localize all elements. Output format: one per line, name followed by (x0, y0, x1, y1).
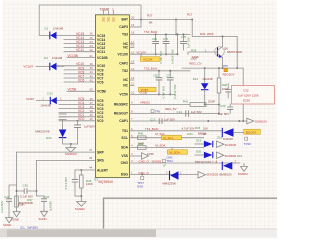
node VC2 pin 39 (59, 109, 104, 115)
svg-text:1uF 50V: 1uF 50V (187, 37, 191, 48)
svg-text:SGND: SGND (11, 217, 19, 221)
svg-text:SGND20: SGND20 (225, 143, 237, 147)
node REGSRC pin 9 (114, 101, 133, 107)
ground SGND left (3, 216, 13, 227)
svg-text:VC5B: VC5B (97, 90, 106, 94)
svg-text:4.7uF 50V: 4.7uF 50V (182, 127, 195, 131)
node SRP pin 47 (17, 148, 105, 155)
svg-text:C82: C82 (153, 73, 158, 77)
svg-text:10K: 10K (203, 127, 208, 131)
svg-text:D14: D14 (193, 77, 199, 81)
svg-text:SDA: SDA (121, 146, 129, 150)
diode D14 1N4148 vertical (193, 68, 213, 105)
node CHG pin 2 (121, 159, 133, 165)
ground SGND arrow SCL (217, 141, 237, 148)
wire top loop BAT to VC15 (39, 5, 141, 35)
capacitor C39 0.1uF 50V (16, 183, 38, 205)
svg-text:VC11: VC11 (97, 50, 105, 54)
diode D13 1N4148 (40, 92, 57, 108)
svg-text:200R: 200R (208, 99, 215, 103)
svg-text:25C: 25C (106, 17, 110, 22)
wire CAP3 stub (130, 26, 142, 28)
svg-text:C44: C44 (4, 195, 10, 199)
svg-text:C39: C39 (23, 183, 29, 187)
svg-text:R44: R44 (187, 132, 193, 136)
svg-text:VC5B: VC5B (68, 88, 77, 92)
svg-text:1uF 50V: 1uF 50V (218, 112, 229, 116)
svg-text:3uF/50V: 3uF/50V (49, 201, 53, 211)
svg-text:VC9X: VC9X (26, 97, 34, 101)
node NC pin 11 (123, 82, 134, 88)
svg-text:CAP3: CAP3 (119, 25, 128, 29)
svg-text:E230: E230 (243, 99, 250, 103)
node VSS pin 3 (121, 152, 133, 158)
svg-text:VC10X: VC10X (23, 64, 33, 68)
node CAP3 pin 19 (119, 23, 134, 29)
svg-text:C77: C77 (166, 73, 171, 77)
svg-text:R40: R40 (138, 132, 144, 136)
diode D21 CHG clamp (216, 160, 237, 170)
svg-text:DSG_O: DSG_O (139, 171, 150, 175)
node BAT pin 20 (121, 16, 134, 22)
svg-text:D10: D10 (237, 154, 243, 158)
ground SGND arrow DSG (198, 172, 232, 179)
ground SGND20 (65, 144, 77, 156)
node REGOUT wire C14 (130, 110, 220, 117)
svg-text:SGND: SGND (3, 223, 11, 227)
svg-text:47: 47 (89, 148, 93, 152)
annotation box C32 value (232, 86, 275, 105)
resistor R36 100K vertical (80, 169, 93, 196)
ground SGND arrow SDA (217, 152, 243, 159)
node SCL pin 5 (121, 134, 133, 140)
svg-text:C76: C76 (163, 37, 168, 41)
svg-text:TS1: TS1 (122, 129, 128, 133)
svg-text:1uF 50V: 1uF 50V (191, 110, 202, 114)
svg-text:NC: NC (123, 78, 128, 82)
node VC10X pin 15 (118, 50, 135, 56)
node NC pin 16 (123, 44, 134, 50)
svg-text:100K: 100K (222, 87, 229, 91)
test point TP17 DSG (137, 174, 144, 189)
node VC10X left (23, 64, 64, 68)
node REGOUT pin 8 (114, 110, 133, 116)
diode D1 1N4148 (45, 26, 64, 39)
svg-text:100K: 100K (190, 57, 197, 61)
svg-text:CHG: CHG (121, 161, 129, 165)
svg-text:D19: D19 (196, 139, 202, 143)
node VC9X left (26, 97, 62, 101)
svg-text:VC0: VC0 (97, 119, 104, 123)
wire top pin stubs (102, 8, 114, 15)
svg-text:BMMSZ0: BMMSZ0 (220, 172, 232, 176)
svg-text:R37: R37 (147, 13, 153, 17)
node VC13 pin 24 (64, 40, 105, 46)
node VC15 pin 26 (57, 32, 105, 38)
svg-text:REGSRC: REGSRC (114, 103, 129, 107)
svg-text:D4: D4 (44, 56, 48, 60)
node BOOST yellow net label (244, 129, 260, 134)
node NC pin 12 (123, 76, 134, 82)
value BMD4C6V0L2 (195, 160, 217, 164)
node TS1 wire (130, 126, 222, 135)
svg-text:25C: 25C (101, 17, 105, 22)
wire TS2 row (130, 67, 191, 71)
diode D4 1N4148 (44, 56, 63, 71)
node VC7 pin 43 (64, 74, 104, 80)
capacitor C42 right branch (37, 191, 53, 211)
svg-text:REG0CV: REG0CV (223, 72, 235, 76)
capacitor C 1uF/50V at VC0 (74, 120, 95, 144)
ground SGND2 alert (75, 195, 86, 211)
svg-text:DSG: DSG (121, 173, 129, 177)
svg-text:R45: R45 (195, 126, 201, 130)
resistor R34 100K base (188, 49, 211, 60)
svg-text:TS3: TS3 (122, 33, 128, 37)
svg-text:1uF/50V: 1uF/50V (84, 125, 95, 129)
svg-text:VC6: VC6 (97, 80, 104, 84)
svg-text:1N4148: 1N4148 (52, 56, 63, 60)
svg-text:VC6: VC6 (78, 78, 85, 82)
svg-text:BMD4: BMD4 (198, 131, 206, 135)
svg-text:SGND20: SGND20 (225, 154, 237, 158)
op-amp U1 IC body BQ76940 (96, 15, 130, 178)
svg-text:4.7uF 50V: 4.7uF 50V (162, 86, 166, 99)
scrollbar (0, 229, 277, 240)
node DSG pin 1 (121, 171, 133, 177)
svg-text:VC10B: VC10B (97, 56, 108, 60)
transistor Q6 MMST3906 (211, 36, 242, 69)
node REGSRC wire R41 (130, 99, 220, 106)
wire vertical x219 (218, 67, 220, 113)
svg-text:1N4148: 1N4148 (53, 26, 64, 30)
svg-text:C13: C13 (150, 117, 156, 121)
node VC1 pin 40 (59, 113, 104, 119)
node TS3 pin 18 (122, 31, 135, 37)
wire BAT corner down to R33 (191, 19, 237, 37)
svg-text:NC: NC (123, 84, 128, 88)
node CAP1 pin 7 (119, 117, 133, 123)
svg-text:M_SDA: M_SDA (155, 144, 165, 148)
node VC4 pin 37 (59, 101, 104, 107)
node DSG wire (130, 170, 199, 174)
capacitor C44 (0, 185, 17, 216)
svg-text:LF: LF (163, 164, 166, 168)
node VC8 pin 44 (64, 70, 104, 76)
node VC5B pin 05 (67, 88, 106, 94)
wire TS3 row (130, 30, 191, 34)
svg-text:VC10X: VC10X (118, 52, 129, 56)
node I2C_SDA yellow net label (167, 148, 187, 155)
svg-text:0.47uF 50V: 0.47uF 50V (170, 49, 174, 64)
node VC0 pin 41 (59, 117, 104, 123)
svg-text:MMSZ6V8: MMSZ6V8 (35, 130, 50, 134)
svg-text:CHG_O: CHG_O (139, 159, 150, 163)
svg-text:M_SCL: M_SCL (163, 136, 173, 140)
svg-text:1N4148: 1N4148 (40, 103, 51, 107)
svg-text:TS2: TS2 (122, 69, 128, 73)
node VC5 pin 36 (57, 97, 104, 103)
svg-text:VC5X: VC5X (119, 93, 128, 97)
capacitor C32 (226, 84, 232, 99)
svg-text:44: 44 (89, 166, 93, 170)
capacitor C alert 4.7uF (64, 170, 78, 196)
svg-text:SGND20: SGND20 (255, 120, 267, 124)
svg-text:MMSZ5V6: MMSZ5V6 (162, 182, 176, 186)
svg-text:VC0: VC0 (78, 117, 85, 121)
ground SGND C42 (39, 210, 48, 221)
capacitor C76 (163, 33, 175, 64)
wire NC stubs right (130, 44, 135, 86)
svg-text:1N4148: 1N4148 (202, 77, 213, 81)
node VSS wire SGND1 (130, 153, 162, 164)
svg-text:SGND2: SGND2 (238, 172, 248, 176)
node VC10X yellow net label (141, 54, 161, 61)
diode D10 zener MMSZ (35, 130, 77, 145)
svg-text:05: 05 (90, 88, 94, 92)
capacitor C33 (218, 104, 233, 116)
node TS2 pin 13 (122, 67, 135, 73)
diode D19 ESD SCL (195, 139, 213, 148)
svg-text:SGND2: SGND2 (75, 207, 85, 211)
node CAP1 wire C13 (130, 117, 247, 124)
svg-text:BQ76940: BQ76940 (99, 180, 113, 184)
capacitor C81 (152, 33, 163, 64)
svg-text:R34: R34 (191, 49, 197, 53)
node SDA pin 4 (121, 144, 133, 150)
wire SRS drop (36, 161, 38, 192)
svg-text:42: 42 (90, 78, 94, 82)
node CHG wire (130, 159, 241, 163)
wire SRP drop (16, 152, 18, 210)
diode D22 MMSZ5V6 (162, 171, 178, 186)
ground arrow down CHG (238, 163, 248, 176)
svg-text:D1: D1 (45, 26, 49, 30)
svg-text:45: 45 (89, 156, 93, 160)
svg-text:D10: D10 (46, 136, 52, 140)
test point TP5 (151, 107, 177, 114)
IC refdes U1 BQ76940 (94, 178, 113, 185)
svg-text:SCL: SCL (121, 136, 128, 140)
svg-text:REG_5V: REG_5V (165, 107, 176, 111)
svg-text:D20: D20 (196, 150, 202, 154)
svg-text:VSS: VSS (121, 154, 128, 158)
svg-text:R17: R17 (187, 13, 193, 17)
svg-text:100R: 100R (147, 152, 154, 156)
svg-text:C14: C14 (177, 110, 183, 114)
node REG_CV wire (182, 57, 243, 70)
node VC5X yellow net label (139, 87, 157, 94)
test point TP11 CHG (162, 156, 173, 168)
test point TP6 (223, 64, 235, 76)
node VC5X pin 10 (119, 91, 134, 97)
svg-text:M_SDA: M_SDA (169, 150, 179, 154)
sheet block outline bottom-right (104, 198, 278, 228)
wire R33 drop (236, 37, 238, 69)
node VC12 pin 23 (64, 44, 105, 50)
svg-text:C33: C33 (220, 104, 226, 108)
svg-text:1uF 100V 1206: 1uF 100V 1206 (238, 94, 259, 98)
svg-text:41: 41 (90, 117, 94, 121)
diode D16 1N4148 (217, 128, 244, 141)
wire VC5X row (130, 92, 176, 95)
node VC6 pin 42 (64, 78, 104, 84)
svg-text:22: 22 (90, 48, 94, 52)
node CAP2 pin 14 (119, 60, 134, 66)
node SRS pin 45 (37, 156, 105, 163)
capacitor C78 (180, 33, 190, 50)
svg-text:8K: 8K (149, 21, 153, 25)
svg-text:NC: NC (123, 46, 128, 50)
resistor R17 pullup (175, 13, 193, 36)
svg-text:0.47uF 50V: 0.47uF 50V (173, 84, 177, 99)
svg-text:TP16: TP16 (244, 142, 251, 146)
svg-text:R41: R41 (183, 99, 189, 103)
node VC11 pin 22 (64, 48, 105, 54)
svg-text:SGND20: SGND20 (65, 152, 77, 156)
node VC9 pin 45 (64, 66, 104, 72)
svg-text:DSG: DSG (137, 185, 143, 189)
svg-text:REG_CV: REG_CV (189, 62, 201, 66)
pin names top (vertical) (101, 17, 115, 22)
svg-text:BAT: BAT (121, 18, 128, 22)
svg-text:R33 200K: R33 200K (200, 32, 214, 36)
capacitor C near VC1 (59, 114, 66, 129)
node VC10 pin 46 (57, 62, 105, 68)
svg-text:SRS: SRS (97, 159, 105, 163)
node ALERT pin 44 (75, 166, 108, 173)
node SDA wire R39 (130, 142, 204, 156)
svg-text:REGOUT: REGOUT (114, 112, 128, 116)
node VC10X right (130, 50, 178, 54)
svg-text:1N4148: 1N4148 (223, 137, 233, 141)
node TS1 pin 6 (122, 127, 133, 133)
svg-text:25C: 25C (111, 17, 115, 22)
svg-text:100K: 100K (86, 182, 93, 186)
svg-text:C32: C32 (243, 89, 249, 93)
svg-text:4.7uF 50V: 4.7uF 50V (64, 177, 68, 190)
node TLBAT label above IC (100, 7, 110, 11)
svg-text:TP5: TP5 (155, 110, 161, 114)
node SCL wire R40 (130, 131, 207, 145)
svg-text:VC10X: VC10X (143, 58, 153, 62)
ground SGND2 right arrow (247, 118, 267, 124)
svg-text:1uF 50V: 1uF 50V (164, 118, 175, 122)
svg-text:C42: C42 (44, 195, 50, 199)
svg-text:VC11: VC11 (76, 48, 84, 52)
ground SGND SRP branch (11, 210, 20, 221)
diode D20 ESD SDA (195, 150, 213, 159)
svg-text:TS2_BLIN: TS2_BLIN (144, 67, 157, 71)
svg-text:C81: C81 (152, 37, 157, 41)
node VC3 pin 38 (59, 105, 104, 111)
svg-text:CAP1: CAP1 (119, 119, 128, 123)
node VC10B pin 21 (67, 54, 108, 60)
resistor R45 0R (195, 126, 207, 136)
value text bottom IC1 (20, 225, 38, 229)
node NC pin 17 (123, 40, 134, 46)
svg-text:VC10B: VC10B (68, 54, 78, 58)
svg-text:TLBAᵀ: TLBAᵀ (100, 7, 110, 11)
svg-text:100R: 100R (18, 203, 25, 207)
resistor R38 100R vertical (15, 196, 25, 207)
svg-text:SGND: SGND (39, 217, 47, 221)
svg-text:CAP2: CAP2 (119, 62, 128, 66)
svg-text:SGND20: SGND20 (207, 172, 219, 176)
wire BAT row (130, 13, 193, 24)
svg-text:MMST3906: MMST3906 (227, 50, 242, 54)
capacitor C77 (166, 70, 177, 99)
capacitor C82 (153, 70, 166, 99)
svg-text:VREG0: VREG0 (140, 100, 150, 104)
svg-text:R39: R39 (138, 142, 144, 146)
svg-text:SRP: SRP (97, 150, 105, 154)
svg-text:21: 21 (90, 54, 94, 58)
svg-text:TP11: TP11 (166, 159, 173, 163)
svg-text:ALERT: ALERT (97, 168, 108, 172)
svg-text:3.3uF/50V: 3.3uF/50V (0, 200, 4, 213)
svg-text:TP6: TP6 (223, 64, 229, 68)
svg-text:D16: D16 (217, 136, 223, 140)
svg-text:D13: D13 (47, 92, 53, 96)
resistor R36 100K vertical right (217, 68, 243, 121)
test point TP16 (244, 137, 251, 146)
svg-text:BOOST: BOOST (246, 130, 257, 134)
node I2C_SCL yellow net label (161, 135, 181, 140)
wire TS3 vertical x177 (177, 34, 179, 54)
svg-text:TS1_BLIN: TS1_BLIN (145, 127, 158, 131)
node VC14 pin 25 (64, 36, 105, 42)
